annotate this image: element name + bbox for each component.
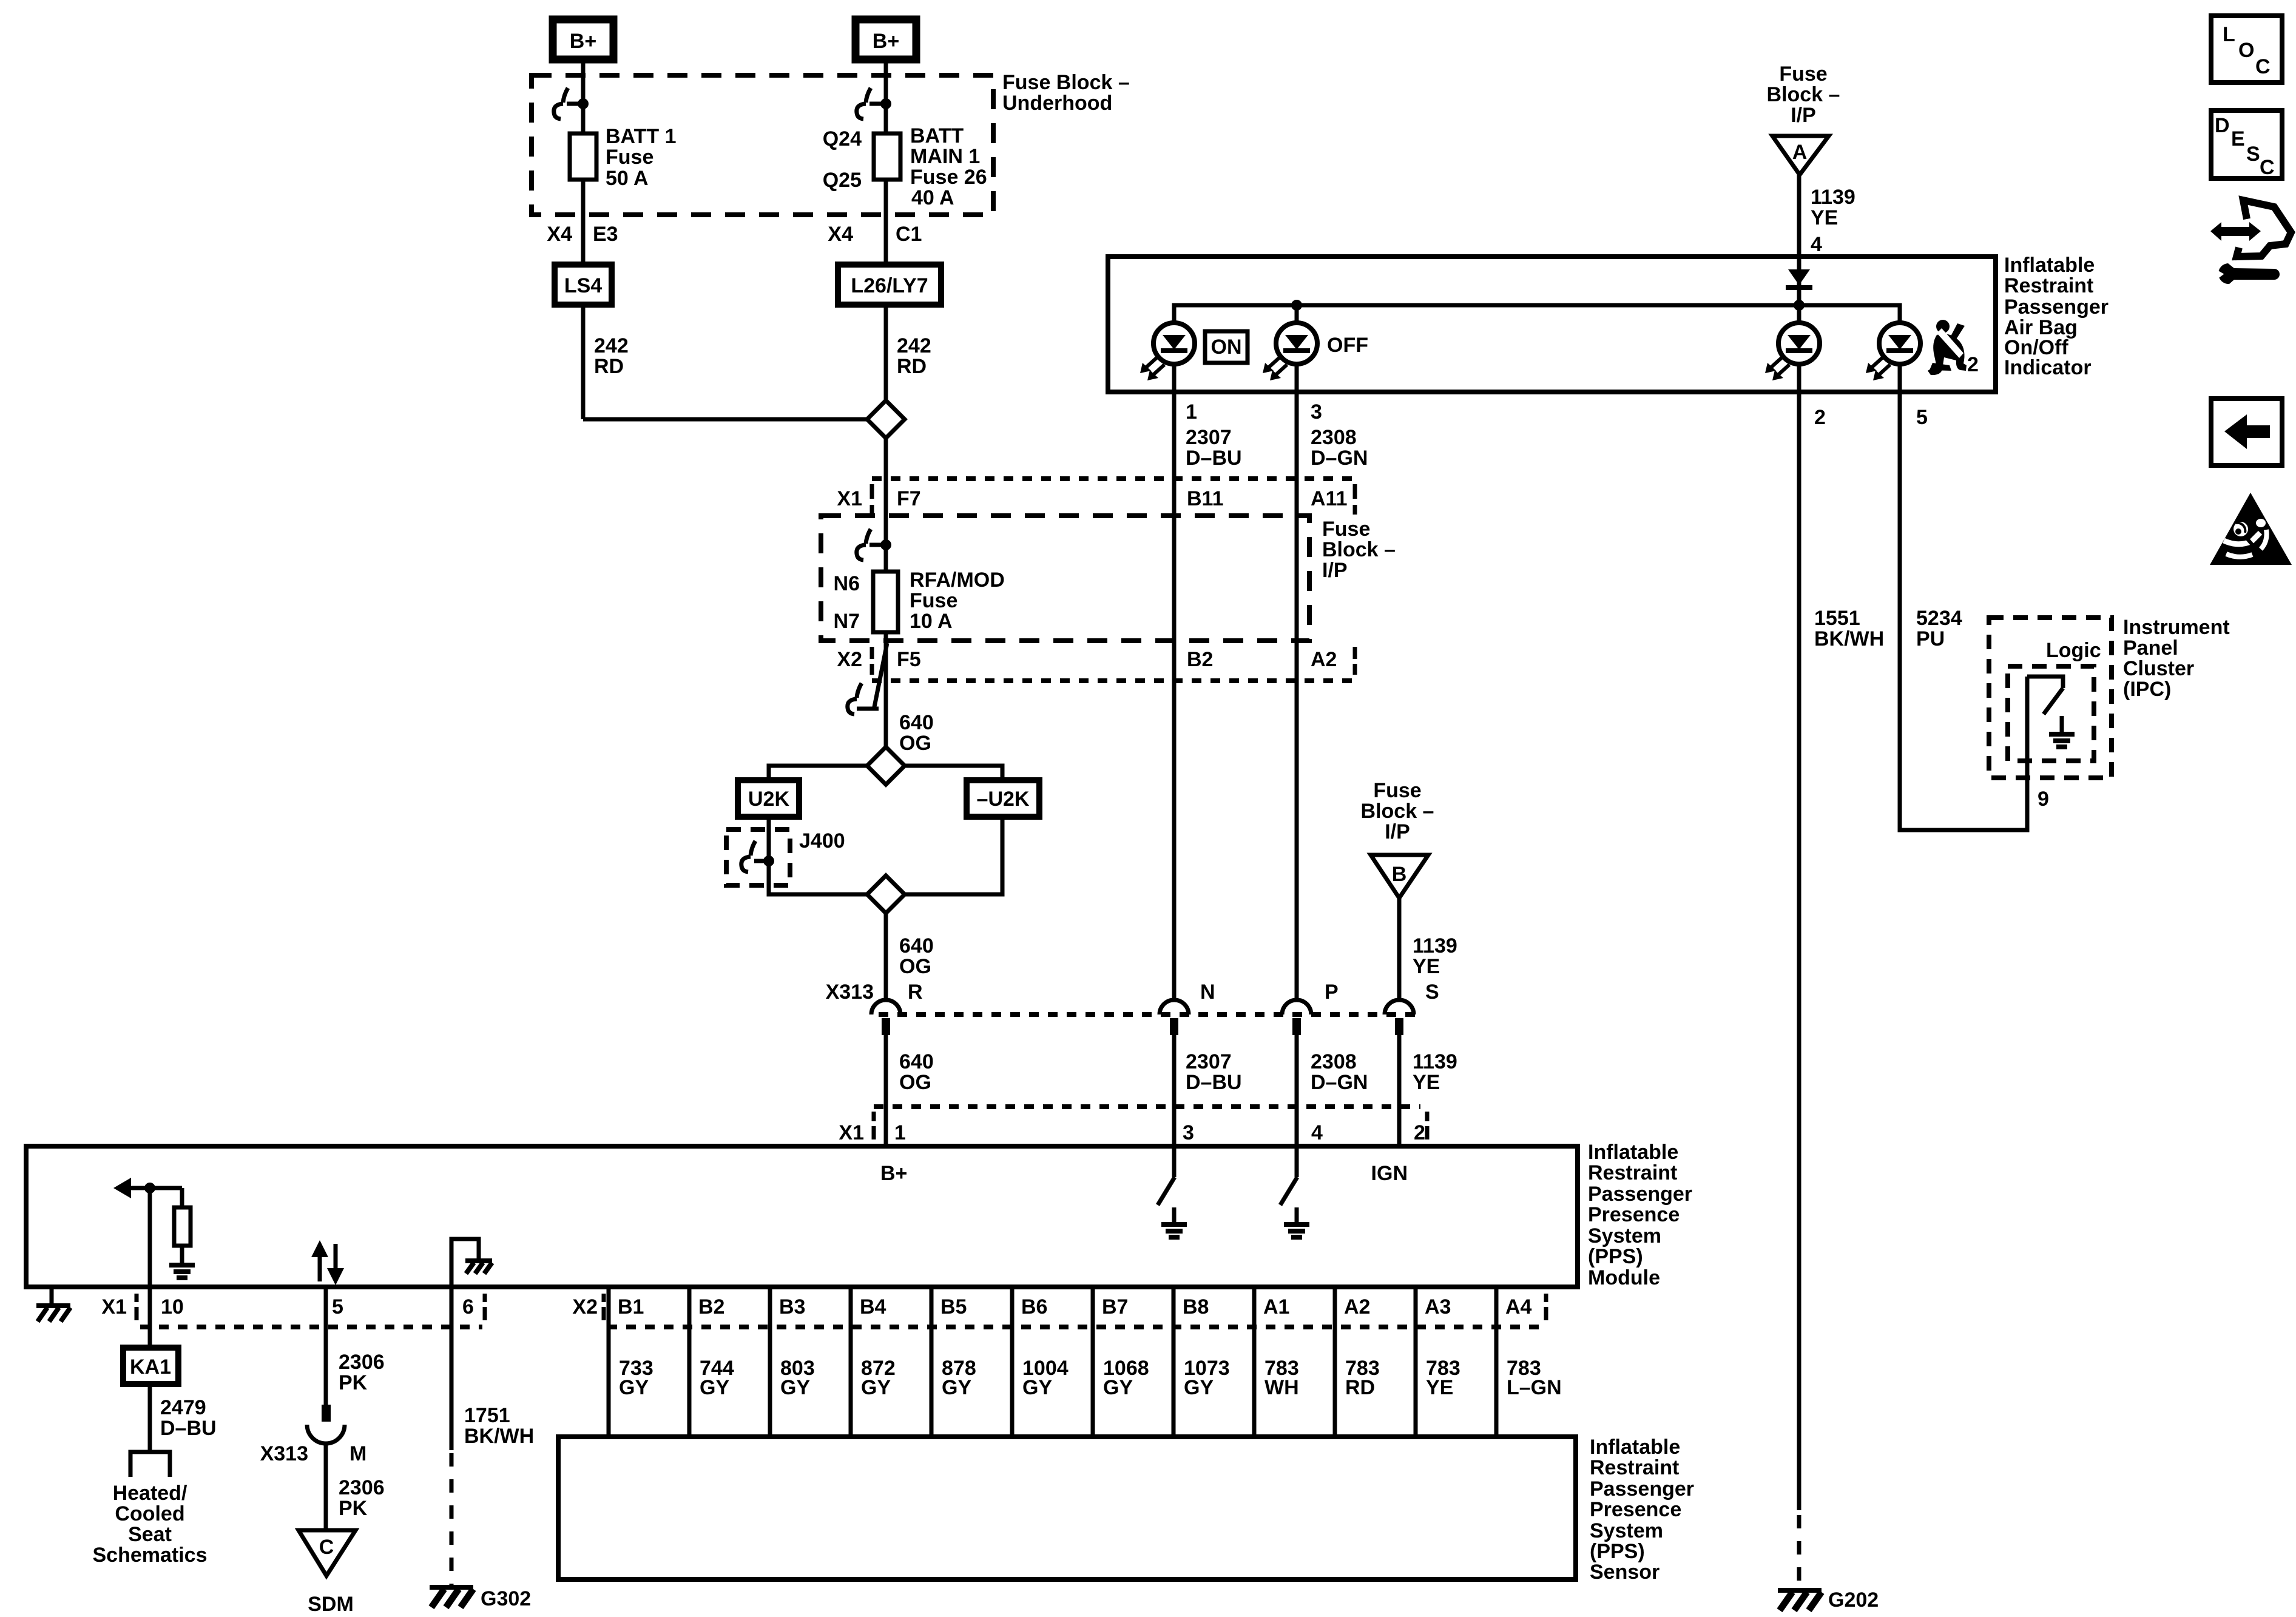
OFF lamp LED <box>1295 305 1299 325</box>
svg-text:E: E <box>2231 127 2245 150</box>
lamp at pin 5 <box>1879 323 1920 364</box>
svg-text:Inflatable: Inflatable <box>1588 1141 1678 1164</box>
svg-text:KA1: KA1 <box>130 1355 171 1379</box>
svg-text:Cooled: Cooled <box>115 1502 184 1525</box>
svg-text:Seat: Seat <box>128 1523 172 1546</box>
svg-text:C: C <box>319 1536 334 1559</box>
splice pack J400 dashed box <box>726 829 790 885</box>
svg-text:C: C <box>2260 156 2275 179</box>
svg-text:M: M <box>349 1442 366 1465</box>
svg-text:Presence: Presence <box>1588 1203 1680 1226</box>
indicator internal bus <box>1174 305 1900 325</box>
svg-text:N: N <box>1200 981 1215 1004</box>
svg-text:N7: N7 <box>834 610 860 633</box>
svg-text:B2: B2 <box>1187 648 1213 671</box>
inflatable restraint PPS module box <box>26 1146 1578 1287</box>
module internal: chassis ground at pin 6 <box>451 1239 479 1287</box>
SIR caution triangle <box>2210 493 2292 565</box>
svg-text:GY: GY <box>700 1376 729 1399</box>
ON lamp LED <box>1153 323 1195 364</box>
svg-text:9: 9 <box>2038 788 2049 811</box>
connector hook inside fuse block I/P <box>866 529 871 544</box>
svg-text:1139: 1139 <box>1413 1050 1457 1073</box>
svg-text:X1: X1 <box>837 487 862 510</box>
ground G202 <box>1778 1588 1822 1593</box>
wire 5234 PU pin 5 to IPC <box>1900 392 2027 830</box>
connector hook inside J400 <box>751 841 755 856</box>
IPC internal ground <box>2060 716 2064 733</box>
X313 terminal N <box>1160 1000 1189 1014</box>
X313 terminal R <box>871 1000 900 1014</box>
wire 803 GY pin B3 <box>768 1287 772 1437</box>
svg-text:Presence: Presence <box>1590 1498 1681 1521</box>
wire 783 YE pin A3 <box>1414 1287 1418 1437</box>
wire 640 OG to X313 R <box>884 913 888 1000</box>
svg-text:I/P: I/P <box>1385 820 1410 843</box>
svg-text:A11: A11 <box>1311 487 1348 510</box>
svg-text:I/P: I/P <box>1791 104 1816 127</box>
module internal pin 10 wire <box>148 1188 152 1287</box>
ON label box <box>1205 331 1248 363</box>
inflatable restraint passenger air bag on/off indicator box <box>1108 257 1996 392</box>
off-page triangle B <box>1371 855 1428 898</box>
wire branch to U2K <box>769 766 867 780</box>
wire 2306 PK pin 5 <box>324 1287 328 1405</box>
svg-text:B1: B1 <box>618 1295 644 1318</box>
svg-text:40 A: 40 A <box>911 186 954 209</box>
diode at pin 4 <box>1788 269 1810 285</box>
module internal: switch to ground at pin 3 <box>1172 1146 1177 1177</box>
svg-text:2: 2 <box>1967 353 1979 376</box>
svg-text:X4: X4 <box>828 223 853 246</box>
svg-text:B+: B+ <box>880 1162 907 1185</box>
svg-text:IGN: IGN <box>1371 1162 1408 1185</box>
svg-text:Logic: Logic <box>2046 639 2101 662</box>
wire: B+ left into fuse block <box>581 59 586 133</box>
wire 872 GY pin B4 <box>849 1287 853 1437</box>
fuse BATT MAIN 1 Fuse 26 40A <box>874 133 900 180</box>
svg-text:10: 10 <box>161 1295 184 1318</box>
svg-text:OG: OG <box>899 1071 931 1094</box>
svg-text:Block –: Block – <box>1322 538 1396 561</box>
svg-text:1139: 1139 <box>1811 186 1855 209</box>
svg-text:Passenger: Passenger <box>2004 295 2109 319</box>
back navigation arrow box <box>2211 399 2282 465</box>
svg-text:2306: 2306 <box>339 1476 385 1499</box>
svg-text:2308: 2308 <box>1311 426 1357 449</box>
svg-text:5234: 5234 <box>1916 607 1962 630</box>
svg-text:Fuse: Fuse <box>1322 518 1370 541</box>
engine option -U2K box <box>967 780 1039 817</box>
svg-text:1551: 1551 <box>1814 607 1860 630</box>
svg-text:R: R <box>908 981 923 1004</box>
svg-text:BK/WH: BK/WH <box>464 1425 534 1448</box>
module connector row X1 pins 1/3/4/2 <box>874 1104 1420 1109</box>
svg-text:Fuse 26: Fuse 26 <box>910 166 987 189</box>
svg-text:F5: F5 <box>897 648 921 671</box>
svg-text:1: 1 <box>1186 400 1197 424</box>
svg-text:Q25: Q25 <box>823 169 862 192</box>
svg-text:B8: B8 <box>1183 1295 1209 1318</box>
wire 640 OG lower <box>884 1035 888 1146</box>
svg-text:PK: PK <box>339 1371 368 1394</box>
off-page bracket to heated/cooled seat schematics <box>130 1452 170 1477</box>
wire: B+ right into fuse block <box>884 59 888 133</box>
junction node at pin4 diode <box>1794 300 1805 311</box>
engine option U2K box <box>738 780 799 817</box>
fuse BATT 1 50A <box>570 133 596 180</box>
svg-text:Underhood: Underhood <box>1002 92 1112 115</box>
svg-text:B5: B5 <box>940 1295 967 1318</box>
svg-text:SDM: SDM <box>308 1593 354 1616</box>
splice diamond S2 <box>867 747 905 785</box>
svg-text:(PPS): (PPS) <box>1588 1245 1643 1268</box>
svg-text:X1: X1 <box>839 1121 864 1144</box>
fuse RFA/MOD 10A <box>873 572 898 632</box>
svg-text:640: 640 <box>899 711 934 734</box>
lamp at pin 2 <box>1797 305 1801 325</box>
junction node at OFF lamp <box>1291 300 1302 311</box>
svg-text:242: 242 <box>897 334 931 357</box>
relay KA1 box <box>123 1348 178 1384</box>
wire 783 WH pin A1 <box>1252 1287 1257 1437</box>
svg-text:Schematics: Schematics <box>93 1544 208 1567</box>
X313 terminal S <box>1385 1000 1414 1014</box>
IPC logic dashed box <box>2008 666 2094 761</box>
wire -U2K down <box>905 817 1002 894</box>
svg-text:A3: A3 <box>1425 1295 1451 1318</box>
svg-text:C: C <box>2255 55 2271 78</box>
svg-text:A4: A4 <box>1505 1295 1532 1318</box>
wire 1139 YE lower <box>1397 1035 1402 1146</box>
svg-text:D–GN: D–GN <box>1311 1071 1368 1094</box>
svg-text:1751: 1751 <box>464 1404 510 1427</box>
svg-text:RD: RD <box>897 355 927 378</box>
svg-text:YE: YE <box>1426 1376 1453 1399</box>
svg-text:B: B <box>1392 863 1407 886</box>
module internal: chassis ground stub (left) <box>50 1287 54 1305</box>
svg-text:D: D <box>2215 114 2230 137</box>
svg-text:E3: E3 <box>593 223 618 246</box>
wire pin 10 to KA1 <box>148 1287 152 1348</box>
module internal: arrow to B+ rail <box>113 1178 131 1198</box>
svg-text:10 A: 10 A <box>910 610 953 633</box>
svg-text:1: 1 <box>894 1121 906 1144</box>
svg-text:Inflatable: Inflatable <box>1590 1436 1680 1459</box>
wire 2308 D-GN upper <box>1295 392 1299 1000</box>
svg-text:X2: X2 <box>572 1295 598 1318</box>
wire 1139 YE to S <box>1397 898 1402 1000</box>
svg-text:X313: X313 <box>826 981 874 1004</box>
svg-text:5: 5 <box>1916 406 1928 429</box>
svg-text:L–GN: L–GN <box>1507 1376 1562 1399</box>
LOC navigation box <box>2211 16 2282 83</box>
svg-text:Module: Module <box>1588 1266 1660 1289</box>
svg-text:Passenger: Passenger <box>1590 1477 1694 1501</box>
connector hook at BATT 1 fuse feed <box>563 88 568 103</box>
wire 1073 GY pin B8 <box>1172 1287 1176 1437</box>
svg-text:2307: 2307 <box>1186 426 1232 449</box>
svg-text:Block –: Block – <box>1361 800 1434 823</box>
module internal: signal ground (resistor) <box>169 1263 195 1268</box>
wire 733 GY pin B1 <box>607 1287 611 1437</box>
seat belt passenger icon <box>1928 320 1967 375</box>
svg-text:BATT 1: BATT 1 <box>606 125 676 148</box>
svg-text:O: O <box>2238 39 2254 62</box>
wire from fuse to X2|F5 and down <box>884 632 888 747</box>
svg-text:J400: J400 <box>799 829 845 852</box>
svg-text:GY: GY <box>1103 1376 1133 1399</box>
svg-text:B4: B4 <box>860 1295 886 1318</box>
svg-text:2306: 2306 <box>339 1351 385 1374</box>
svg-text:640: 640 <box>899 934 934 957</box>
svg-text:640: 640 <box>899 1050 934 1073</box>
fuse block underhood dashed box <box>532 75 993 215</box>
svg-text:OFF: OFF <box>1327 334 1368 357</box>
X313 terminal P <box>1282 1000 1311 1014</box>
wire branch to -U2K <box>905 766 1002 780</box>
svg-text:X2: X2 <box>837 648 862 671</box>
DESC navigation box <box>2211 110 2282 178</box>
svg-text:RFA/MOD: RFA/MOD <box>910 569 1005 592</box>
svg-text:3: 3 <box>1183 1121 1194 1144</box>
svg-text:D–BU: D–BU <box>160 1417 217 1440</box>
svg-text:Fuse Block –: Fuse Block – <box>1002 71 1130 94</box>
svg-text:Q24: Q24 <box>823 127 862 150</box>
svg-text:3: 3 <box>1311 400 1322 424</box>
connector hook below F5 <box>857 683 862 698</box>
instrument panel cluster IPC dashed box <box>1989 618 2112 778</box>
svg-text:B2: B2 <box>698 1295 724 1318</box>
svg-text:Heated/: Heated/ <box>113 1482 187 1505</box>
svg-text:C1: C1 <box>896 223 922 246</box>
wire 783 RD pin A2 <box>1333 1287 1337 1437</box>
wire 2479 D-BU <box>148 1384 152 1452</box>
wire: fuse BATT1 to LS4, X4|E3 connector <box>581 180 586 265</box>
svg-text:N6: N6 <box>834 572 860 595</box>
svg-text:Restraint: Restraint <box>2004 274 2093 297</box>
svg-text:2308: 2308 <box>1311 1050 1357 1073</box>
ground G302 <box>430 1585 473 1590</box>
wire from splice to X1|F7 <box>884 438 888 572</box>
svg-text:B11: B11 <box>1187 487 1224 510</box>
svg-text:B6: B6 <box>1021 1295 1047 1318</box>
svg-text:GY: GY <box>780 1376 810 1399</box>
wire 2307 D-BU lower <box>1172 1035 1177 1146</box>
splice diamond S1 <box>867 400 905 438</box>
svg-text:D–BU: D–BU <box>1186 1071 1242 1094</box>
hand/double-arrow tool icon <box>2210 200 2291 284</box>
svg-text:LS4: LS4 <box>564 274 602 297</box>
svg-text:OG: OG <box>899 732 931 755</box>
svg-text:Restraint: Restraint <box>1588 1161 1677 1184</box>
wire 1551 BK/WH pin 2 to G202 <box>1797 392 1801 1510</box>
wire 744 GY pin B2 <box>687 1287 692 1437</box>
svg-text:B3: B3 <box>779 1295 805 1318</box>
svg-text:Fuse: Fuse <box>910 589 957 612</box>
svg-text:ON: ON <box>1211 336 1242 359</box>
wire 2306 PK to SDM <box>324 1443 328 1530</box>
svg-text:Fuse: Fuse <box>606 146 653 169</box>
svg-text:System: System <box>1588 1224 1661 1247</box>
svg-text:G202: G202 <box>1828 1588 1879 1612</box>
svg-text:YE: YE <box>1413 955 1440 978</box>
svg-text:L26/LY7: L26/LY7 <box>851 274 928 297</box>
svg-text:A1: A1 <box>1263 1295 1289 1318</box>
svg-text:Restraint: Restraint <box>1590 1456 1679 1479</box>
svg-text:OG: OG <box>899 955 931 978</box>
module internal: resistor <box>180 1188 184 1207</box>
inflatable restraint PPS sensor box <box>558 1437 1576 1579</box>
svg-text:(IPC): (IPC) <box>2123 678 2171 701</box>
svg-text:B7: B7 <box>1102 1295 1128 1318</box>
svg-text:G302: G302 <box>481 1587 531 1610</box>
splice diamond S3 <box>867 876 905 913</box>
svg-text:A2: A2 <box>1311 648 1337 671</box>
power feed B+ (left) <box>553 19 613 59</box>
svg-text:Passenger: Passenger <box>1588 1183 1692 1206</box>
svg-text:GY: GY <box>619 1376 649 1399</box>
svg-text:D–BU: D–BU <box>1186 447 1242 470</box>
wire 2307 D-BU upper <box>1172 392 1177 1000</box>
svg-text:2307: 2307 <box>1186 1050 1232 1073</box>
svg-text:S: S <box>1425 981 1439 1004</box>
wire 878 GY pin B5 <box>930 1287 934 1437</box>
svg-text:GY: GY <box>1184 1376 1214 1399</box>
svg-text:Fuse: Fuse <box>1373 779 1421 802</box>
module internal: bidirectional arrows at pin 5 <box>318 1251 322 1281</box>
wire 1004 GY pin B6 <box>1010 1287 1015 1437</box>
svg-text:GY: GY <box>1022 1376 1052 1399</box>
svg-text:PU: PU <box>1916 627 1945 650</box>
svg-text:P: P <box>1325 981 1339 1004</box>
connector row X1 / F7 / B11 / A11 <box>872 476 1355 481</box>
engine option L26/LY7 box <box>838 265 941 305</box>
off-page triangle C to SDM <box>299 1530 356 1576</box>
connector hook at BATT MAIN 1 fuse feed <box>866 88 871 103</box>
svg-text:A: A <box>1792 141 1808 164</box>
svg-text:U2K: U2K <box>748 788 789 811</box>
svg-text:4: 4 <box>1811 233 1822 256</box>
svg-text:S: S <box>2246 143 2260 166</box>
svg-text:4: 4 <box>1311 1121 1323 1144</box>
svg-text:D–GN: D–GN <box>1311 447 1368 470</box>
wire U2K down <box>769 817 867 894</box>
svg-text:Indicator: Indicator <box>2004 356 2092 379</box>
svg-text:X4: X4 <box>547 223 572 246</box>
power feed B+ (right) <box>856 19 916 59</box>
svg-text:X1: X1 <box>101 1295 127 1318</box>
wire 1139 YE pin 4 <box>1797 175 1801 305</box>
svg-text:Fuse: Fuse <box>1779 62 1827 86</box>
svg-text:Inflatable: Inflatable <box>2004 254 2095 277</box>
svg-text:X313: X313 <box>260 1442 308 1465</box>
svg-text:WH: WH <box>1264 1376 1299 1399</box>
svg-text:Panel: Panel <box>2123 636 2178 660</box>
svg-text:YE: YE <box>1413 1071 1440 1094</box>
svg-text:–U2K: –U2K <box>977 788 1030 811</box>
wire 2308 D-GN lower <box>1295 1035 1299 1146</box>
IPC internal switch <box>2027 677 2063 688</box>
svg-text:2479: 2479 <box>160 1396 206 1419</box>
svg-text:I/P: I/P <box>1322 559 1348 582</box>
wire: fuse MAIN1 to L26/LY7, X4|C1 connector <box>884 180 888 265</box>
engine option LS4 box <box>555 265 612 305</box>
svg-text:Sensor: Sensor <box>1590 1561 1660 1584</box>
svg-text:1139: 1139 <box>1413 934 1457 957</box>
svg-text:2: 2 <box>1414 1121 1425 1144</box>
svg-text:5: 5 <box>332 1295 343 1318</box>
wire 1751 BK/WH pin 6 <box>450 1287 454 1450</box>
svg-text:RD: RD <box>594 355 624 378</box>
wire 242 RD (left) <box>581 305 586 419</box>
wire 783 L–GN pin A4 <box>1494 1287 1499 1437</box>
svg-text:Cluster: Cluster <box>2123 657 2194 680</box>
svg-text:RD: RD <box>1345 1376 1375 1399</box>
wire 1068 GY pin B7 <box>1091 1287 1095 1437</box>
svg-text:2: 2 <box>1814 406 1826 429</box>
svg-text:Block –: Block – <box>1767 83 1840 106</box>
module internal: switch to ground at pin 4 <box>1295 1146 1299 1177</box>
svg-text:B+: B+ <box>570 30 596 53</box>
svg-text:L: L <box>2223 23 2235 46</box>
svg-text:MAIN 1: MAIN 1 <box>910 145 980 168</box>
svg-text:YE: YE <box>1811 206 1838 229</box>
svg-text:BATT: BATT <box>910 124 964 147</box>
svg-text:F7: F7 <box>897 487 921 510</box>
wire 242 RD (right) <box>884 305 888 400</box>
svg-text:BK/WH: BK/WH <box>1814 627 1884 650</box>
svg-text:PK: PK <box>339 1497 368 1520</box>
svg-text:242: 242 <box>594 334 629 357</box>
svg-text:6: 6 <box>462 1295 474 1318</box>
svg-text:GY: GY <box>942 1376 971 1399</box>
off-page triangle A <box>1772 136 1829 175</box>
svg-text:B+: B+ <box>873 30 899 53</box>
svg-text:System: System <box>1590 1519 1663 1542</box>
svg-text:50 A: 50 A <box>606 167 649 190</box>
svg-text:GY: GY <box>861 1376 891 1399</box>
svg-text:A2: A2 <box>1344 1295 1370 1318</box>
svg-text:(PPS): (PPS) <box>1590 1540 1645 1563</box>
in-line connector X313 M <box>322 1405 331 1422</box>
svg-text:Instrument: Instrument <box>2123 616 2230 639</box>
fuse block I/P dashed box <box>821 516 1309 641</box>
